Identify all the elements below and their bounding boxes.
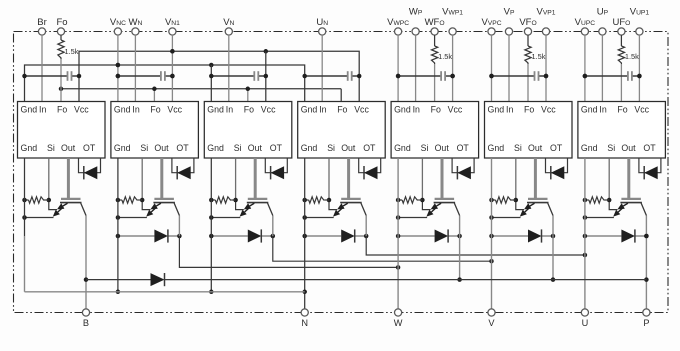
- resistor Rg5 (gate-emitter): [396, 197, 423, 203]
- wire VFO resistor to U6 Fo pin: [527, 64, 529, 102]
- wire U4 Gnd pin to emitter: [302, 215, 333, 220]
- wire VWPC to U5 Gnd pin: [396, 35, 401, 101]
- svg-text:In: In: [319, 105, 326, 115]
- terminal N: [301, 309, 308, 328]
- wire U4 Si pin to sense emitter: [327, 158, 337, 210]
- svg-text:OT: OT: [550, 143, 563, 153]
- svg-text:In: In: [226, 105, 233, 115]
- wire U1 Gnd pin to emitter: [22, 215, 53, 220]
- svg-text:Out: Out: [341, 143, 356, 153]
- wire U4 Gnd down to terminal N: [302, 158, 307, 309]
- terminal U: [581, 309, 588, 328]
- transistor Q2 (IGBT): [146, 199, 179, 217]
- resistor R5 1.5k (Fo pull-up): [432, 35, 453, 64]
- resistor Rg3 (gate-emitter): [209, 197, 236, 203]
- terminal VFO: [519, 17, 536, 35]
- driver IC U7: [578, 102, 666, 159]
- svg-text:Out: Out: [61, 143, 76, 153]
- terminal UP: [597, 7, 609, 36]
- wire U1 Gnd down to N emitter bus: [24, 158, 26, 292]
- svg-text:OT: OT: [83, 143, 96, 153]
- svg-text:Si: Si: [327, 143, 335, 153]
- resistor R7 1.5k (Fo pull-up): [618, 35, 639, 64]
- svg-text:Vcc: Vcc: [448, 105, 463, 115]
- svg-text:1.5k: 1.5k: [65, 47, 79, 56]
- wire U7 Gnd pin to emitter: [583, 215, 614, 220]
- svg-text:1.5k: 1.5k: [438, 52, 452, 61]
- wire U6 Si pin to sense emitter: [514, 158, 524, 210]
- svg-text:Vcc: Vcc: [634, 105, 649, 115]
- wire VUP1 to U7 Vcc pin: [637, 35, 642, 101]
- wire Br to U1 In: [41, 35, 43, 101]
- terminal VN1: [165, 17, 180, 35]
- wire U3 Gnd down to N emitter bus: [209, 158, 214, 294]
- svg-text:In: In: [39, 105, 46, 115]
- driver IC U4: [298, 102, 386, 159]
- diode DF2 (freewheel): [116, 229, 182, 242]
- terminal Br: [37, 17, 47, 35]
- svg-text:Fo: Fo: [431, 105, 441, 115]
- terminal VVP1: [537, 7, 556, 36]
- terminal B: [82, 309, 89, 328]
- wire UN to U4 In pin: [321, 35, 323, 101]
- svg-text:P: P: [643, 318, 649, 328]
- driver IC U5: [391, 102, 479, 159]
- svg-text:1.5k: 1.5k: [625, 52, 639, 61]
- wire WFO resistor to U5 Fo pin: [434, 64, 436, 102]
- diode D8 (brake freewheel to P bus): [86, 273, 646, 286]
- svg-text:Vcc: Vcc: [354, 105, 369, 115]
- svg-text:Si: Si: [234, 143, 242, 153]
- wire U3 Si pin to sense emitter: [233, 158, 243, 210]
- wire U5 Out pin to gate: [441, 158, 444, 198]
- terminal P: [643, 309, 650, 328]
- terminal VUP1: [630, 7, 650, 36]
- svg-text:Si: Si: [140, 143, 148, 153]
- diode DF6 (freewheel): [489, 229, 555, 242]
- svg-text:Fo: Fo: [337, 105, 347, 115]
- wire VWP1 to U5 Vcc pin: [450, 35, 455, 101]
- svg-text:Vcc: Vcc: [167, 105, 182, 115]
- svg-text:Gnd: Gnd: [394, 105, 411, 115]
- diode DF7 (freewheel): [583, 229, 649, 242]
- svg-text:Fo: Fo: [150, 105, 160, 115]
- wire Q2 collector route to W: [179, 216, 400, 270]
- wire VVPC to U6 Gnd pin: [489, 35, 494, 101]
- svg-text:Fo: Fo: [524, 105, 534, 115]
- capacitor C1 (Vcc decoupling): [22, 71, 81, 81]
- diode D1 (OT clamp): [79, 158, 101, 179]
- wire ch3 Vcc stub from Vcc rail: [265, 51, 267, 101]
- resistor Rg4 (gate-emitter): [302, 197, 329, 203]
- svg-text:Vcc: Vcc: [74, 105, 89, 115]
- wire Q3 collector route to V: [273, 216, 494, 264]
- wire VNC to U2 Gnd pin: [116, 35, 121, 101]
- terminal WN: [128, 17, 142, 35]
- svg-text:U: U: [582, 318, 589, 328]
- svg-text:W: W: [394, 318, 403, 328]
- svg-text:Gnd: Gnd: [207, 105, 224, 115]
- diode DF3 (freewheel): [209, 229, 275, 242]
- resistor Rg2 (gate-emitter): [116, 197, 143, 203]
- capacitor C6 (Vcc decoupling): [489, 71, 548, 81]
- svg-text:Fo: Fo: [57, 105, 67, 115]
- wire Fo common bus (low-side fault output): [59, 87, 341, 102]
- svg-text:In: In: [413, 105, 420, 115]
- svg-text:Gnd: Gnd: [581, 143, 598, 153]
- svg-text:In: In: [599, 105, 606, 115]
- transistor Q3 (IGBT): [240, 199, 273, 217]
- svg-text:Gnd: Gnd: [114, 143, 131, 153]
- svg-text:N: N: [301, 318, 308, 328]
- diode D6 (OT clamp): [546, 158, 568, 179]
- wire Q1 collector to terminal B: [84, 216, 89, 309]
- svg-text:Fo: Fo: [617, 105, 627, 115]
- wire VUPC to U7 Gnd pin: [583, 35, 588, 101]
- svg-text:Gnd: Gnd: [301, 143, 318, 153]
- terminal VWPC: [387, 17, 409, 35]
- svg-text:Gnd: Gnd: [581, 105, 598, 115]
- wire U3 Out pin to gate: [254, 158, 257, 198]
- svg-text:Si: Si: [607, 143, 615, 153]
- resistor Rg6 (gate-emitter): [489, 197, 516, 203]
- wire Q4 collector route to U: [366, 216, 587, 258]
- wire WP to U5 In pin: [415, 35, 417, 101]
- wire U1 Out pin to gate: [67, 158, 70, 198]
- terminal VWP1: [442, 7, 463, 36]
- svg-text:In: In: [506, 105, 513, 115]
- driver IC U1: [18, 102, 106, 159]
- wire Fo resistor to U1 Fo pin: [60, 59, 62, 102]
- svg-text:B: B: [83, 318, 89, 328]
- svg-text:Fo: Fo: [56, 17, 67, 28]
- transistor Q6 (IGBT): [520, 199, 553, 217]
- wire U1 Si pin to sense emitter: [47, 158, 57, 210]
- svg-text:Gnd: Gnd: [488, 105, 505, 115]
- svg-text:Vcc: Vcc: [541, 105, 556, 115]
- wire VVP1 to U6 Vcc pin: [544, 35, 549, 101]
- module case outline (dash-dot border): [14, 32, 669, 313]
- transistor Q1 (IGBT): [53, 199, 86, 217]
- wire U7 Si pin to sense emitter: [607, 158, 617, 210]
- terminal WP: [409, 7, 423, 36]
- svg-text:OT: OT: [643, 143, 656, 153]
- svg-text:Out: Out: [154, 143, 169, 153]
- svg-text:Si: Si: [514, 143, 522, 153]
- diode DF4 (freewheel): [302, 229, 368, 242]
- wire U6 Gnd pin to emitter: [489, 215, 520, 220]
- diode D7 (OT clamp): [639, 158, 661, 179]
- svg-text:OT: OT: [270, 143, 283, 153]
- svg-text:Vcc: Vcc: [261, 105, 276, 115]
- resistor R1 1.5k (Fo pull-up): [58, 35, 79, 59]
- svg-text:OT: OT: [363, 143, 376, 153]
- wire U2 Gnd down to N emitter bus: [116, 158, 121, 294]
- terminal VNC: [110, 17, 126, 35]
- svg-text:Fo: Fo: [244, 105, 254, 115]
- driver IC U2: [111, 102, 198, 159]
- wire U5 Si pin to sense emitter: [420, 158, 430, 210]
- svg-text:V: V: [488, 318, 495, 328]
- terminal V: [488, 309, 496, 328]
- wire U2 Gnd pin to emitter: [116, 215, 147, 220]
- svg-text:Gnd: Gnd: [21, 143, 38, 153]
- transistor Q7 (IGBT): [613, 199, 646, 217]
- wire UFO resistor to U7 Fo pin: [620, 64, 622, 102]
- svg-text:Out: Out: [435, 143, 450, 153]
- capacitor C4 (Vcc decoupling): [302, 71, 361, 81]
- wire W phase vertical (U5 emitter to terminal W): [397, 158, 399, 309]
- diode D5 (OT clamp): [452, 158, 474, 179]
- svg-text:Si: Si: [47, 143, 55, 153]
- resistor R6 1.5k (Fo pull-up): [525, 35, 546, 64]
- resistor Rg7 (gate-emitter): [583, 197, 610, 203]
- svg-text:OT: OT: [457, 143, 470, 153]
- terminal VN: [223, 17, 234, 35]
- wire VN1 Vcc rail (low-side supply bus): [79, 49, 359, 101]
- terminal VVPC: [481, 17, 501, 35]
- transistor Q4 (IGBT): [333, 199, 366, 217]
- wire U phase vertical (U7 emitter to terminal U): [584, 158, 586, 309]
- wire ch3 Gnd stub from ground rail: [210, 65, 212, 102]
- diode D3 (OT clamp): [265, 158, 287, 179]
- svg-text:OT: OT: [176, 143, 189, 153]
- capacitor C7 (Vcc decoupling): [583, 71, 642, 81]
- terminal Fo: [56, 17, 67, 35]
- wire V phase vertical (U6 emitter to terminal V): [491, 158, 493, 309]
- svg-text:Out: Out: [528, 143, 543, 153]
- svg-text:Gnd: Gnd: [21, 105, 38, 115]
- terminal WFO: [425, 17, 445, 35]
- wire VN1 to U2 Vcc pin: [170, 35, 175, 101]
- wire U6 Out pin to gate: [534, 158, 537, 198]
- wire U5 Gnd pin to emitter: [396, 215, 427, 220]
- svg-text:Gnd: Gnd: [301, 105, 318, 115]
- wire U4 Out pin to gate: [347, 158, 350, 198]
- wire WN to U2 In pin: [134, 35, 136, 101]
- svg-text:Si: Si: [421, 143, 429, 153]
- terminal VUPC: [575, 17, 596, 35]
- diode D4 (OT clamp): [359, 158, 381, 179]
- terminal UN: [316, 17, 328, 35]
- wire Q5 collector to P bus: [457, 216, 462, 282]
- wire U7 Out pin to gate: [627, 158, 630, 198]
- svg-text:Out: Out: [621, 143, 636, 153]
- capacitor C2 (Vcc decoupling): [116, 71, 175, 81]
- capacitor C3 (Vcc decoupling): [209, 71, 268, 81]
- wire VN to U3 In pin: [228, 35, 230, 101]
- driver IC U6: [485, 102, 573, 159]
- svg-text:Gnd: Gnd: [207, 143, 224, 153]
- svg-text:Gnd: Gnd: [114, 105, 131, 115]
- diode DF5 (freewheel): [396, 229, 462, 242]
- resistor Rg1 (gate-emitter): [22, 197, 49, 203]
- capacitor C5 (Vcc decoupling): [396, 71, 455, 81]
- terminal W: [394, 309, 403, 328]
- wire N emitter bus: [25, 291, 305, 293]
- wire U3 Gnd pin to emitter: [209, 215, 240, 220]
- svg-text:1.5k: 1.5k: [532, 52, 546, 61]
- svg-text:Out: Out: [248, 143, 263, 153]
- svg-text:Gnd: Gnd: [488, 143, 505, 153]
- wire U2 Si pin to sense emitter: [140, 158, 150, 210]
- diode D2 (OT clamp): [172, 158, 194, 179]
- driver IC U3: [204, 102, 291, 159]
- terminal VP: [504, 7, 515, 36]
- terminal UFO: [612, 17, 630, 35]
- svg-text:Br: Br: [37, 17, 47, 28]
- wire VNC ground rail (low-side ground bus): [25, 63, 305, 102]
- wire Q6 collector to P bus: [551, 216, 556, 282]
- svg-text:Gnd: Gnd: [394, 143, 411, 153]
- wire VP to U6 In pin: [508, 35, 510, 101]
- wire U2 Out pin to gate: [160, 158, 163, 198]
- svg-text:In: In: [132, 105, 139, 115]
- transistor Q5 (IGBT): [426, 199, 459, 217]
- wire Q7 collector to terminal P: [644, 216, 649, 309]
- wire UP to U7 In pin: [601, 35, 603, 101]
